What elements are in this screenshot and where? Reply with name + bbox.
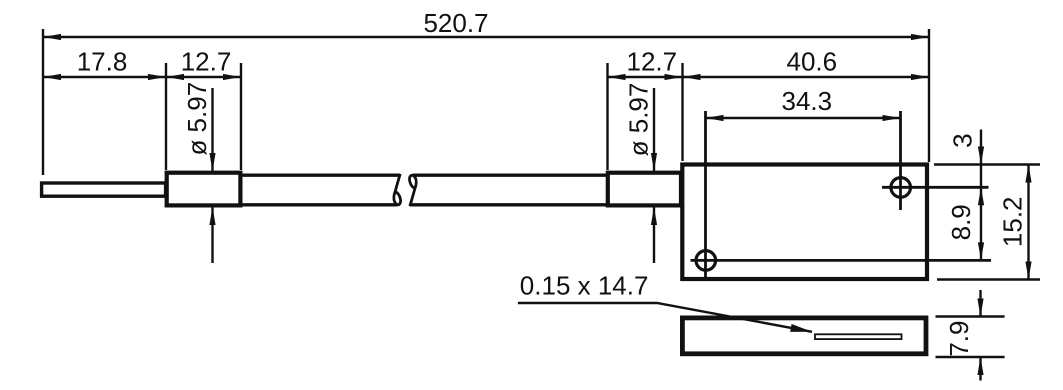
dimension phi5.97 left lower arrow line [211,207,213,263]
svg-text:ø 5.97: ø 5.97 [182,82,212,156]
extension line x=682.5 [681,63,683,161]
leader underline and diagonal to slot [518,303,812,332]
dimension 17.8 line [43,76,166,78]
svg-text:17.8: 17.8 [77,47,128,77]
body sleeve right (ø5.97 ferrule) [608,173,681,206]
dimension 7.9 upper arrow line [979,290,981,317]
cable break curve left [394,174,401,205]
svg-text:40.6: 40.6 [786,47,837,77]
side view top extension line [936,315,1005,317]
side view bottom extension line [936,356,1005,358]
extension line x=241 [240,63,242,170]
dimension 520.7 line [43,36,929,38]
svg-text:34.3: 34.3 [781,86,832,116]
hole H2 bottom-left circle [696,251,716,271]
extension line x=929 (right end overall) [928,29,930,162]
dimension phi5.97 right upper arrow line [653,88,655,171]
hole H1 horizontal centerline [882,186,989,189]
hole H1 top-right circle [891,178,911,198]
cable break curve right [410,175,417,206]
housing top extension line (right) [934,163,1040,165]
svg-text:3: 3 [947,133,977,147]
dimension 3 / 8.9 shared line [980,130,982,261]
wire cable segment 1 top [240,173,400,176]
svg-text:0.15 x 14.7: 0.15 x 14.7 [520,271,649,301]
leader arrowhead [790,324,813,336]
svg-text:520.7: 520.7 [423,8,488,38]
wire cable segment 2 bottom [410,203,609,206]
body sleeve left (ø5.97 ferrule) [167,173,241,206]
dimension phi5.97 left upper arrow line [211,88,213,171]
wire cable segment 1 bottom [240,203,398,206]
side view rectangle (bottom) [682,318,926,354]
hole H2 vertical centerline / 34.3 extension [704,111,707,279]
svg-text:12.7: 12.7 [181,47,232,77]
housing (top view rectangle) [682,165,927,280]
dimension 12.7 left line [166,76,241,78]
dimension 40.6 line [683,76,930,78]
wire cable segment 2 top [413,173,609,176]
housing bottom extension line (right) [937,278,1040,280]
svg-text:15.2: 15.2 [997,196,1027,247]
extension line x=166 [165,63,167,170]
hole H2 horizontal centerline [691,259,992,262]
dimension 12.7 right line [608,76,683,78]
extension line left end overall (x=43) [42,29,44,175]
hole H1 vertical centerline / 34.3 extension [899,111,902,210]
dimension 15.2 line [1027,165,1029,280]
slot 0.15x14.7 in side view [815,334,902,339]
svg-text:12.7: 12.7 [626,47,677,77]
dimension 34.3 line [706,117,901,119]
dimension phi5.97 right lower arrow line [653,207,655,263]
probe (thin tip rod, left) [42,183,166,196]
svg-text:8.9: 8.9 [946,204,976,240]
extension line x=607.5 [606,63,608,170]
svg-text:7.9: 7.9 [944,321,974,357]
svg-text:ø 5.97: ø 5.97 [623,83,653,157]
dimension 7.9 lower arrow line [979,357,981,381]
